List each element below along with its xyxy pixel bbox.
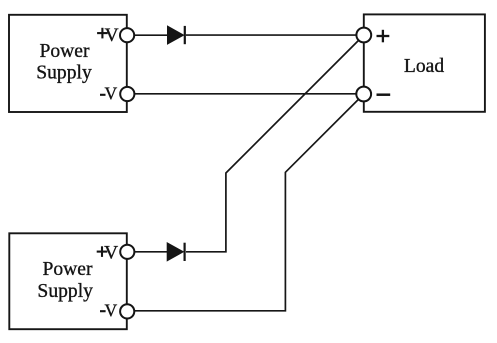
terminal PS1 +V bbox=[120, 28, 134, 42]
svg-text:Load: Load bbox=[404, 56, 444, 77]
svg-text:Power: Power bbox=[39, 41, 90, 62]
terminal PS1 -V bbox=[120, 87, 134, 101]
svg-text:V: V bbox=[104, 83, 117, 103]
wire PS2 -V to load - terminal (via bend) bbox=[133, 99, 359, 311]
PS2 -V label bbox=[100, 300, 117, 320]
PS2 +V label bbox=[97, 243, 119, 264]
diode D2 bbox=[167, 243, 184, 261]
PS1 -V label bbox=[100, 83, 117, 103]
svg-text:Power: Power bbox=[42, 259, 93, 280]
wire D1 to load + terminal bbox=[186, 34, 357, 36]
svg-text:V: V bbox=[105, 25, 119, 46]
power supply PS1 box bbox=[9, 15, 127, 112]
terminal load - bbox=[356, 87, 371, 102]
diode D1 bbox=[168, 26, 185, 44]
power supply PS2 box bbox=[9, 233, 127, 329]
terminal load + bbox=[356, 28, 371, 43]
terminal PS2 +V bbox=[120, 245, 134, 259]
svg-text:V: V bbox=[104, 243, 118, 264]
wire D2 to load + terminal (via bend) bbox=[186, 40, 359, 252]
wire PS1 -V to load - terminal bbox=[133, 93, 357, 95]
svg-text:Supply: Supply bbox=[36, 63, 92, 84]
load + polarity mark bbox=[377, 30, 390, 43]
wire PS2 +V to diode D2 bbox=[133, 251, 168, 253]
power supply PS1 label bbox=[36, 41, 92, 84]
PS1 +V label bbox=[97, 25, 118, 46]
svg-text:V: V bbox=[104, 300, 117, 320]
svg-text:Supply: Supply bbox=[37, 281, 93, 302]
load box bbox=[364, 14, 485, 111]
load - polarity mark bbox=[377, 93, 391, 96]
wire PS1 +V to diode D1 bbox=[133, 34, 168, 36]
terminal PS2 -V bbox=[120, 304, 134, 318]
power supply PS2 label bbox=[37, 259, 93, 302]
